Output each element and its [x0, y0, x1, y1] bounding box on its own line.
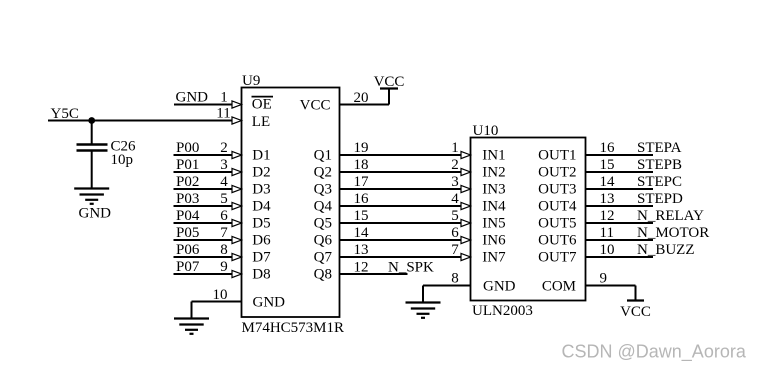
svg-text:D2: D2: [252, 164, 270, 180]
svg-text:IN2: IN2: [482, 164, 505, 180]
svg-text:IN1: IN1: [482, 147, 505, 163]
svg-text:D7: D7: [252, 249, 271, 265]
svg-text:Q1: Q1: [314, 147, 332, 163]
svg-text:P01: P01: [176, 157, 199, 173]
svg-text:2: 2: [451, 157, 459, 173]
svg-text:16: 16: [600, 140, 616, 156]
svg-text:1: 1: [451, 140, 459, 156]
svg-text:12: 12: [354, 260, 369, 276]
svg-text:13: 13: [600, 191, 615, 207]
svg-text:N_SPK: N_SPK: [388, 260, 434, 276]
svg-text:4: 4: [451, 191, 459, 207]
svg-text:13: 13: [354, 242, 369, 258]
svg-text:P07: P07: [176, 259, 200, 275]
svg-text:1: 1: [220, 90, 228, 106]
svg-text:P04: P04: [176, 208, 200, 224]
svg-text:IN4: IN4: [482, 198, 506, 214]
svg-text:IN7: IN7: [482, 249, 506, 265]
svg-text:LE: LE: [252, 114, 270, 130]
svg-text:VCC: VCC: [620, 304, 651, 320]
svg-text:D6: D6: [252, 232, 271, 248]
svg-text:18: 18: [354, 157, 369, 173]
svg-text:Q4: Q4: [314, 198, 333, 214]
svg-text:Q2: Q2: [314, 164, 332, 180]
svg-text:P03: P03: [176, 191, 199, 207]
svg-text:VCC: VCC: [374, 74, 405, 90]
svg-text:7: 7: [220, 225, 228, 241]
svg-text:OUT2: OUT2: [538, 164, 576, 180]
svg-text:OUT1: OUT1: [538, 147, 576, 163]
svg-text:2: 2: [220, 140, 228, 156]
svg-text:Y5C: Y5C: [51, 106, 79, 122]
svg-text:5: 5: [451, 208, 459, 224]
svg-text:10p: 10p: [111, 152, 134, 168]
svg-text:6: 6: [220, 208, 228, 224]
svg-text:P00: P00: [176, 140, 199, 156]
svg-text:STEPB: STEPB: [637, 157, 682, 173]
svg-text:11: 11: [600, 225, 614, 241]
svg-text:ULN2003: ULN2003: [472, 303, 533, 319]
svg-text:STEPC: STEPC: [637, 174, 682, 190]
svg-text:5: 5: [220, 191, 228, 207]
svg-text:STEPA: STEPA: [637, 140, 682, 156]
svg-text:8: 8: [220, 242, 228, 258]
svg-text:U9: U9: [242, 73, 260, 89]
svg-text:IN5: IN5: [482, 215, 505, 231]
svg-text:P02: P02: [176, 174, 199, 190]
svg-text:D1: D1: [252, 147, 270, 163]
svg-text:14: 14: [354, 225, 370, 241]
svg-text:Q8: Q8: [314, 266, 332, 282]
svg-text:Q5: Q5: [314, 215, 332, 231]
svg-text:GND: GND: [253, 295, 286, 311]
svg-text:8: 8: [451, 271, 459, 287]
svg-text:U10: U10: [473, 123, 499, 139]
svg-text:3: 3: [451, 174, 459, 190]
svg-text:3: 3: [220, 157, 228, 173]
svg-text:D3: D3: [252, 181, 270, 197]
svg-text:12: 12: [600, 208, 615, 224]
svg-text:N_RELAY: N_RELAY: [637, 208, 704, 224]
svg-text:10: 10: [600, 242, 615, 258]
svg-text:OE: OE: [252, 97, 272, 113]
svg-text:VCC: VCC: [300, 98, 331, 114]
svg-text:OUT6: OUT6: [538, 232, 577, 248]
svg-text:11: 11: [216, 106, 230, 122]
svg-text:20: 20: [354, 90, 369, 106]
svg-text:9: 9: [600, 271, 608, 287]
svg-text:COM: COM: [542, 278, 576, 294]
svg-text:19: 19: [354, 140, 369, 156]
svg-text:10: 10: [213, 287, 228, 303]
svg-text:OUT4: OUT4: [538, 198, 577, 214]
svg-text:14: 14: [600, 174, 616, 190]
svg-text:7: 7: [451, 242, 459, 258]
svg-text:GND: GND: [176, 90, 209, 106]
svg-text:16: 16: [354, 191, 370, 207]
svg-text:GND: GND: [483, 279, 516, 295]
svg-text:9: 9: [220, 259, 228, 275]
svg-text:N_MOTOR: N_MOTOR: [637, 225, 709, 241]
svg-text:15: 15: [354, 208, 369, 224]
svg-text:17: 17: [354, 174, 370, 190]
svg-text:IN6: IN6: [482, 232, 506, 248]
svg-text:CSDN @Dawn_Aorora: CSDN @Dawn_Aorora: [562, 342, 747, 363]
svg-text:N_BUZZ: N_BUZZ: [637, 242, 695, 258]
svg-text:15: 15: [600, 157, 615, 173]
svg-text:GND: GND: [79, 206, 112, 222]
svg-text:P05: P05: [176, 225, 199, 241]
svg-text:4: 4: [220, 174, 228, 190]
svg-text:OUT3: OUT3: [538, 181, 576, 197]
svg-text:M74HC573M1R: M74HC573M1R: [242, 320, 345, 336]
svg-text:Q6: Q6: [314, 232, 333, 248]
svg-text:OUT7: OUT7: [538, 249, 577, 265]
svg-text:6: 6: [451, 225, 459, 241]
svg-text:Q3: Q3: [314, 181, 332, 197]
svg-text:D8: D8: [252, 266, 270, 282]
svg-text:OUT5: OUT5: [538, 215, 576, 231]
svg-text:P06: P06: [176, 242, 200, 258]
svg-text:STEPD: STEPD: [637, 191, 683, 207]
svg-text:D5: D5: [252, 215, 270, 231]
svg-text:IN3: IN3: [482, 181, 505, 197]
svg-text:Q7: Q7: [314, 249, 333, 265]
svg-text:D4: D4: [252, 198, 271, 214]
